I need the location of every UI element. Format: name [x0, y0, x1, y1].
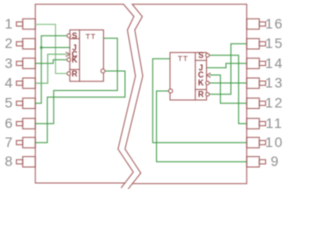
- svg-text:S: S: [72, 31, 78, 40]
- wire pin11 to FF2 S input: [209, 55, 246, 123]
- wire pin5 to FF1 S input: [35, 36, 67, 104]
- wire pin12 to FF2 C input: [210, 75, 247, 103]
- IC body tear line (right side of break): [125, 4, 143, 188]
- wire pin7 to FF1 Q-bar output: [35, 71, 125, 143]
- svg-text:16: 16: [265, 15, 284, 31]
- U1 K inversion bubble: [67, 58, 71, 62]
- IC body right half outline: [132, 4, 246, 183]
- svg-text:11: 11: [266, 115, 284, 131]
- svg-text:9: 9: [271, 153, 279, 169]
- svg-text:TT: TT: [85, 32, 95, 41]
- wire pin9 to FF2 Q-bar output: [157, 91, 247, 162]
- svg-text:2: 2: [5, 35, 13, 51]
- wire pin4 to FF1 C input: [35, 54, 66, 83]
- U2 C dynamic input arrow: [207, 73, 210, 77]
- pin 12: [247, 98, 266, 108]
- wire branch to FF1 J input: [41, 47, 70, 49]
- pin 1: [16, 19, 35, 29]
- svg-text:14: 14: [265, 55, 284, 71]
- svg-text:R: R: [72, 69, 78, 78]
- svg-text:S: S: [198, 51, 204, 60]
- U1 Q-bar output bubble: [101, 69, 105, 73]
- svg-text:10: 10: [265, 134, 284, 150]
- pin 16: [247, 19, 266, 29]
- svg-text:7: 7: [5, 134, 13, 150]
- svg-text:6: 6: [5, 115, 13, 131]
- IC body tear line (left side of break): [118, 4, 136, 187]
- svg-text:R: R: [198, 90, 204, 99]
- wire pin10 to FF2 Q output: [153, 59, 247, 143]
- U1 C dynamic input arrow: [66, 52, 69, 56]
- svg-text:3: 3: [5, 55, 13, 71]
- pin 2: [16, 39, 35, 49]
- U1 R inversion bubble: [67, 72, 71, 76]
- U2 S inversion bubble: [206, 53, 210, 57]
- pin 7: [16, 137, 35, 147]
- U2 K inversion bubble: [206, 81, 210, 85]
- wire pin15 to FF2 R input: [209, 44, 246, 95]
- pin 5: [16, 98, 35, 108]
- svg-text:13: 13: [265, 75, 284, 91]
- IC body left half outline: [35, 4, 125, 183]
- pin 4: [16, 78, 35, 88]
- pin 9: [247, 157, 266, 167]
- pin 11: [247, 118, 266, 128]
- wire pin3 to FF1 K input: [35, 60, 67, 64]
- U1 S inversion bubble: [67, 34, 71, 38]
- pin 8: [16, 157, 35, 167]
- pin 6: [16, 118, 35, 128]
- svg-text:8: 8: [5, 153, 13, 169]
- svg-text:1: 1: [5, 15, 13, 31]
- svg-text:K: K: [198, 78, 204, 87]
- junction dot S/J branch: [40, 46, 43, 49]
- wire pin1 to FF1 R input: [35, 24, 67, 73]
- pin 3: [16, 58, 35, 68]
- flip-flop U2 (right TT) body: [170, 53, 207, 101]
- svg-text:4: 4: [5, 75, 13, 91]
- U2 Q-bar output bubble: [169, 89, 173, 93]
- pin 15: [247, 39, 266, 49]
- svg-text:K: K: [72, 56, 78, 65]
- svg-text:15: 15: [265, 35, 284, 51]
- svg-text:TT: TT: [178, 54, 188, 63]
- wire pin13 to FF2 K input: [209, 82, 246, 84]
- svg-text:5: 5: [5, 95, 13, 111]
- pin 14: [247, 58, 266, 68]
- svg-text:12: 12: [265, 95, 284, 111]
- pin 13: [247, 78, 266, 88]
- wire pin14 to FF2 J input: [207, 63, 247, 67]
- wire pin6 to FF1 Q output: [35, 38, 117, 123]
- pin 10: [247, 137, 266, 147]
- U2 R inversion bubble: [206, 93, 210, 97]
- flip-flop U1 (left TT) body: [70, 30, 104, 81]
